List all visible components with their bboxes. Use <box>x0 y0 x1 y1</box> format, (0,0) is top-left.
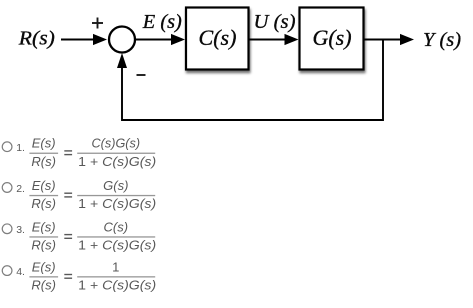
svg-text:C(s)G(s): C(s)G(s) <box>92 136 141 151</box>
option 3 fraction right-hand side <box>77 219 156 252</box>
wire summing junction to C(s) with arrowhead <box>135 34 186 45</box>
option 1 fraction E(s)/R(s) <box>29 136 58 169</box>
wire C(s) to G(s) with arrowhead <box>249 34 299 45</box>
option 3 radio button <box>2 224 12 234</box>
svg-text:E(s): E(s) <box>32 136 56 151</box>
svg-text:4.: 4. <box>16 266 25 278</box>
svg-text:E(s): E(s) <box>32 178 56 193</box>
option 1 fraction right-hand side <box>77 136 156 169</box>
option 2 fraction E(s)/R(s) <box>29 178 58 211</box>
svg-text:G(s): G(s) <box>312 25 351 50</box>
option 3 equals sign <box>64 234 72 239</box>
svg-text:R(s): R(s) <box>31 196 56 211</box>
option 4 equals sign <box>64 274 72 279</box>
svg-text:G(s): G(s) <box>103 178 128 193</box>
option 1 radio button <box>2 142 12 152</box>
feedback wire from takeoff point to summing junction <box>117 40 383 121</box>
wire G(s) to output Y(s) with arrowhead <box>364 34 414 45</box>
svg-text:U (s): U (s) <box>254 11 296 33</box>
svg-text:R(s): R(s) <box>31 238 56 253</box>
option 2 radio button <box>2 183 12 193</box>
option 3 fraction E(s)/R(s) <box>29 219 58 252</box>
svg-text:R(s): R(s) <box>18 28 55 50</box>
svg-text:2.: 2. <box>16 183 25 195</box>
svg-text:1 + C(s)G(s): 1 + C(s)G(s) <box>78 238 156 253</box>
svg-text:1 + C(s)G(s): 1 + C(s)G(s) <box>78 196 156 211</box>
option 4 fraction right-hand side <box>77 259 156 292</box>
block G(s) <box>300 8 364 70</box>
svg-text:1.: 1. <box>16 142 25 154</box>
option 2 fraction right-hand side <box>77 178 156 211</box>
option 1 equals sign <box>64 150 72 155</box>
svg-text:1: 1 <box>112 259 119 274</box>
summing junction <box>109 27 135 53</box>
svg-text:C(s): C(s) <box>104 219 129 234</box>
svg-text:R(s): R(s) <box>31 154 56 169</box>
minus sign at summing junction <box>137 74 146 76</box>
option 4 fraction E(s)/R(s) <box>29 259 58 292</box>
svg-text:1 + C(s)G(s): 1 + C(s)G(s) <box>78 277 156 292</box>
block C(s) <box>186 8 249 70</box>
svg-text:3.: 3. <box>16 224 25 236</box>
option 4 radio button <box>2 266 12 276</box>
svg-text:1 + C(s)G(s): 1 + C(s)G(s) <box>78 154 156 169</box>
svg-text:Y (s): Y (s) <box>423 29 461 51</box>
wire R(s) to summing junction with arrowhead <box>61 34 107 45</box>
svg-text:E(s): E(s) <box>32 259 56 274</box>
svg-text:E (s): E (s) <box>142 11 182 33</box>
svg-text:R(s): R(s) <box>31 277 56 292</box>
svg-text:C(s): C(s) <box>199 25 237 50</box>
svg-text:E(s): E(s) <box>32 219 56 234</box>
option 2 equals sign <box>64 193 72 198</box>
plus sign at summing junction <box>92 18 103 29</box>
